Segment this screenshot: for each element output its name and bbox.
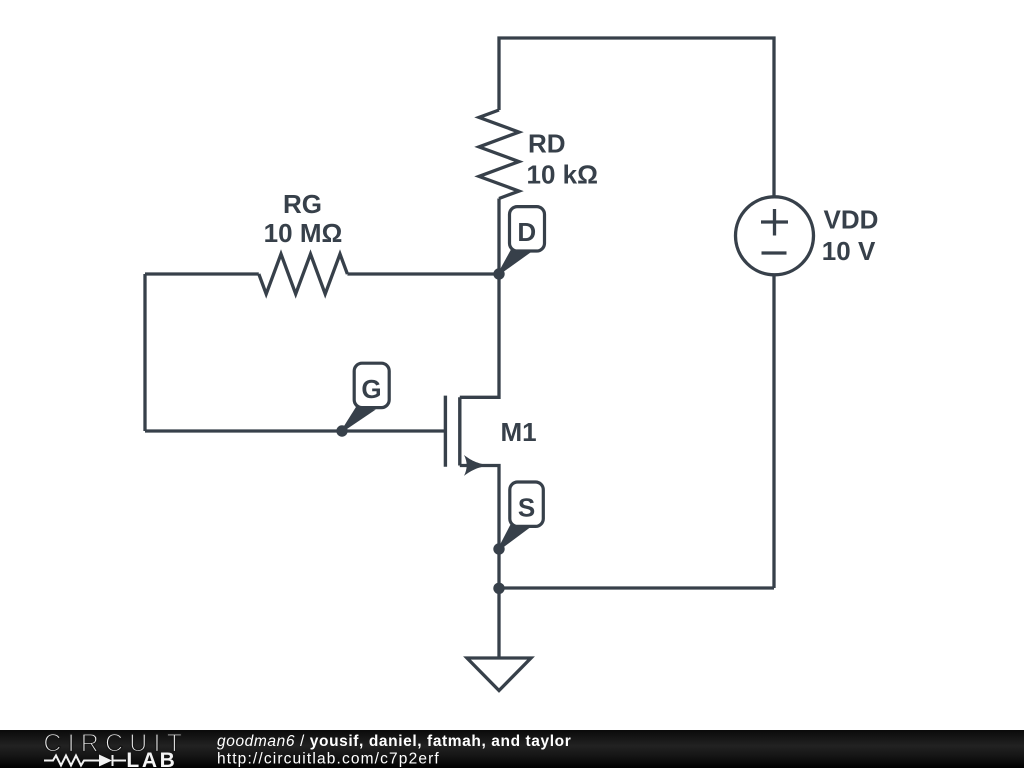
wire right vertical below VDD — [772, 276, 775, 589]
svg-text:S: S — [518, 492, 535, 522]
node G flag — [342, 363, 390, 432]
wire RD bottom to node D — [497, 199, 500, 275]
wire top rail from RD top to VDD top — [499, 38, 774, 196]
svg-text:10 kΩ: 10 kΩ — [527, 159, 598, 189]
svg-text:D: D — [517, 217, 536, 247]
ground — [467, 658, 531, 691]
CircuitLab logo — [43, 729, 188, 768]
wire gate horizontal — [145, 429, 444, 432]
resistor RG — [259, 254, 348, 294]
junction node D — [493, 268, 504, 279]
svg-text:LAB: LAB — [126, 749, 177, 768]
wire left vertical — [143, 274, 146, 431]
svg-text:RG: RG — [283, 189, 322, 219]
svg-text:VDD: VDD — [824, 205, 879, 235]
node D flag — [498, 207, 545, 275]
junction node S — [493, 543, 504, 554]
node S flag — [498, 482, 543, 551]
svg-text:10 V: 10 V — [822, 236, 876, 266]
svg-text:10 MΩ: 10 MΩ — [264, 218, 343, 248]
voltage source VDD — [736, 197, 814, 275]
resistor RD — [479, 110, 519, 199]
junction at bottom rail — [493, 583, 504, 594]
svg-text:RD: RD — [528, 129, 566, 159]
wire drain stub of M1 up to node D — [460, 274, 499, 397]
junction node G — [336, 425, 347, 436]
wire RG left terminal to left corner — [145, 272, 259, 275]
svg-text:M1: M1 — [501, 417, 537, 447]
svg-text:G: G — [361, 374, 381, 404]
wire bottom rail to VDD minus — [499, 586, 774, 589]
wire node D left segment to RG right terminal — [347, 272, 499, 275]
wire source stub of M1 down to ground — [460, 466, 499, 659]
svg-text:http://circuitlab.com/c7p2erf: http://circuitlab.com/c7p2erf — [217, 750, 440, 767]
footer bar — [0, 730, 1024, 768]
transistor M1 — [445, 396, 491, 476]
svg-text:goodman6 / yousif, daniel, fat: goodman6 / yousif, daniel, fatmah, and t… — [217, 733, 571, 750]
